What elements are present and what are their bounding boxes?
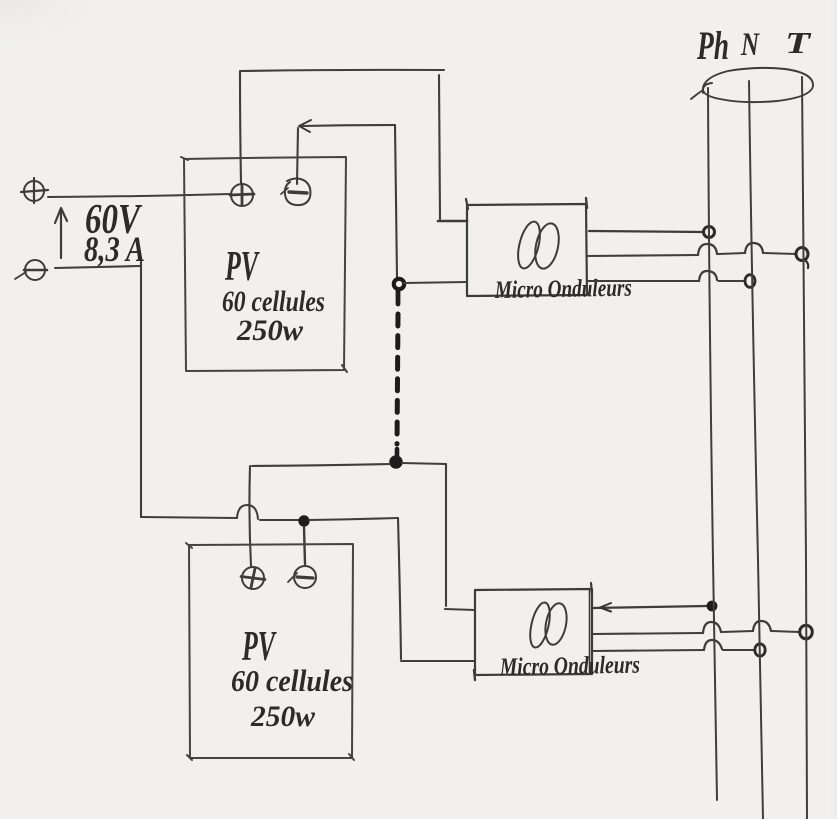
svg-text:T: T	[785, 25, 811, 60]
earth line T	[802, 77, 807, 819]
micro-inverter U2 box	[475, 589, 592, 675]
wire minus rail down to node A	[395, 125, 397, 277]
source minus symbol	[25, 260, 45, 280]
svg-text:PV: PV	[224, 244, 259, 290]
node B blob	[390, 456, 402, 468]
hop over Ph	[698, 244, 717, 255]
arrowhead into U2	[600, 603, 611, 612]
wire PV1 minus up	[297, 128, 298, 184]
wire top rail horizontal	[240, 70, 444, 71]
U2 L3 terminal ring on N	[755, 644, 765, 656]
source plus symbol	[24, 181, 44, 201]
node C dot	[298, 515, 309, 526]
PV panel 2 box	[189, 544, 353, 758]
wire node C to corner	[309, 518, 397, 520]
wire into U1 top-left	[438, 220, 467, 223]
grid bus ellipse	[703, 68, 813, 102]
wire node B left	[252, 464, 390, 466]
neutral line N	[749, 81, 763, 819]
wire minus-source down	[140, 261, 142, 517]
wire into U2 bottom-left	[401, 660, 474, 662]
wire top rail down to inverter U1	[439, 75, 440, 219]
wire minus rail horizontal	[301, 125, 395, 126]
wire hop to node C	[260, 519, 300, 521]
PV panel 1 box	[184, 157, 346, 371]
U2 output wire L3	[592, 650, 704, 651]
arrowhead at minus corner	[299, 120, 311, 132]
U2 output wire L2	[592, 633, 703, 634]
svg-text:Micro Onduleurs: Micro Onduleurs	[494, 275, 632, 304]
U1 output wire L2	[587, 255, 698, 256]
U1 output wire L1	[589, 231, 703, 232]
wire PV1 plus up to top rail	[240, 72, 241, 183]
U2 output wire L1	[592, 606, 707, 608]
svg-text:250w: 250w	[236, 314, 304, 347]
wire lower rail to hop	[141, 517, 237, 518]
hop over N	[745, 243, 763, 253]
PV1 minus terminal	[285, 179, 311, 206]
U1 L2 terminal ring on T	[796, 248, 808, 261]
wire minus-source horizontal	[55, 266, 141, 268]
wire down to U2	[445, 464, 447, 606]
PV1 plus terminal	[231, 184, 253, 206]
svg-text:8,3 A: 8,3 A	[84, 229, 145, 269]
phase line Ph	[708, 88, 717, 800]
wire node A to U1 bottom-left	[404, 282, 467, 283]
PV2 plus terminal	[242, 567, 264, 589]
dashed link between node A and node B	[397, 314, 398, 444]
wire node B right	[402, 463, 446, 464]
svg-text:N: N	[740, 27, 760, 63]
wire into U2 top-left	[445, 609, 475, 610]
wire corner down	[398, 518, 401, 659]
hop over Ph	[699, 271, 717, 281]
U2 L2 terminal ring on T	[800, 625, 813, 639]
hop over Ph	[704, 640, 722, 650]
hop over PV2 plus wire	[237, 505, 258, 519]
node A tail	[396, 290, 401, 304]
hop over N	[753, 621, 771, 631]
PV2 minus terminal	[294, 566, 316, 588]
node A ring	[394, 279, 404, 289]
svg-text:Ph: Ph	[696, 23, 729, 68]
U1 transformer ellipses	[514, 219, 544, 270]
U2 L1 dot on Ph	[707, 601, 718, 612]
svg-text:60 cellules: 60 cellules	[231, 663, 353, 698]
wire down to PV2 plus	[249, 466, 251, 566]
wire node C down to PV2 minus	[304, 527, 305, 564]
U1 L3 terminal ring on N	[745, 275, 755, 288]
U1 L1 terminal ring on Ph	[704, 227, 715, 238]
hop over Ph	[703, 622, 721, 633]
U1 output wire L3	[587, 280, 699, 282]
svg-text:Micro Onduleurs: Micro Onduleurs	[499, 652, 640, 681]
svg-text:250w: 250w	[250, 700, 316, 733]
measurement arrow	[60, 209, 62, 258]
micro-inverter U1 box	[467, 204, 587, 296]
wire plus-source to PV1 plus	[48, 194, 231, 197]
U2 transformer ellipses	[527, 601, 554, 650]
